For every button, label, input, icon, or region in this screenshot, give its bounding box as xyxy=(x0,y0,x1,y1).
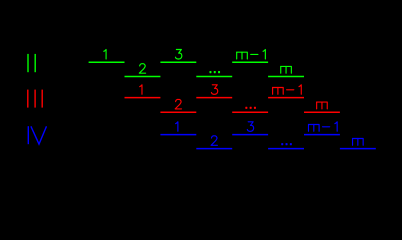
row II segment 1 xyxy=(89,61,125,63)
row III segment m minus 1 xyxy=(268,97,304,99)
row III segment dots xyxy=(232,111,268,113)
row II segment 2 xyxy=(125,76,161,78)
row II label 3 xyxy=(175,50,181,59)
row III segment 2 xyxy=(160,111,196,113)
row II label 2 xyxy=(139,64,145,73)
row IV segment dots xyxy=(268,148,304,150)
row II label 1 xyxy=(104,50,106,59)
row II segment 3 xyxy=(160,61,196,63)
row IV label m minus 1 xyxy=(309,122,338,131)
row II label m minus 1 xyxy=(237,50,266,59)
row III label 2 xyxy=(175,99,181,108)
row IV label 2 xyxy=(211,136,217,145)
row IV segment m minus 1 xyxy=(304,134,340,136)
row IV segment m xyxy=(340,148,376,150)
numeral IV (blue row label) xyxy=(28,126,46,144)
row IV label m xyxy=(353,139,364,146)
row III label 3 xyxy=(211,85,217,94)
row II label dots xyxy=(209,71,220,73)
row III label dots xyxy=(245,107,256,109)
row IV label 3 xyxy=(247,122,253,131)
row III segment 1 xyxy=(125,97,161,99)
row III label m minus 1 xyxy=(273,85,302,94)
row II label m xyxy=(281,66,292,73)
row IV segment 2 xyxy=(196,148,232,150)
row IV label dots xyxy=(281,143,292,145)
numeral III (red row label) xyxy=(28,90,42,108)
row III label 1 xyxy=(140,85,142,94)
row II segment m minus 1 xyxy=(232,61,268,63)
row IV label 1 xyxy=(176,122,178,131)
row II segment m xyxy=(268,76,304,78)
row III segment m xyxy=(304,111,340,113)
row IV segment 1 xyxy=(160,134,196,136)
row II segment dots xyxy=(196,76,232,78)
row III label m xyxy=(317,102,328,109)
numeral II (green row label) xyxy=(28,54,35,72)
row III segment 3 xyxy=(196,97,232,99)
row IV segment 3 xyxy=(232,134,268,136)
